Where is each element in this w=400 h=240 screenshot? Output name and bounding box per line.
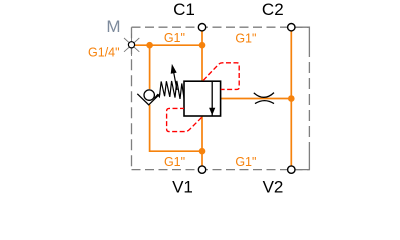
spring of relief valve <box>154 81 184 100</box>
svg-text:G1": G1" <box>164 155 185 169</box>
port C1 <box>198 24 205 31</box>
port V1 <box>198 166 205 173</box>
junction node A <box>146 42 153 49</box>
junction node B <box>199 42 206 49</box>
svg-text:G1": G1" <box>235 31 256 45</box>
junction node C <box>199 148 206 155</box>
border solid corner bottom-right <box>296 152 310 170</box>
check valve CV1 <box>137 90 160 105</box>
pilot line upper (red dashed) <box>203 63 239 90</box>
svg-text:V1: V1 <box>172 178 193 197</box>
adjustment arrow <box>171 64 177 90</box>
svg-text:V2: V2 <box>263 178 284 197</box>
manifold block dashed border right <box>308 46 310 152</box>
restrictor orifice <box>254 93 274 104</box>
svg-text:G1": G1" <box>235 155 256 169</box>
wire check valve down and right to node C <box>150 105 202 152</box>
pilot line lower (red dashed) <box>167 108 202 131</box>
port V2 <box>288 166 295 173</box>
relief valve body U1 <box>184 81 221 116</box>
border solid corner top-right <box>295 27 309 46</box>
wire valve right to node D horizontal <box>221 98 292 100</box>
junction node D <box>288 95 295 102</box>
svg-text:G1": G1" <box>164 31 185 45</box>
svg-text:C1: C1 <box>173 0 195 19</box>
port M plugged symbol <box>124 34 139 57</box>
manifold block dashed border left <box>131 27 133 169</box>
wire node A down to check valve <box>149 45 151 89</box>
wire C1 down to valve top <box>201 31 203 82</box>
svg-text:G1/4": G1/4" <box>88 46 120 60</box>
manifold block dashed border bottom <box>132 169 310 171</box>
manifold block dashed border top <box>132 26 310 28</box>
svg-text:C2: C2 <box>262 0 284 19</box>
wire M to node A horizontal <box>135 44 202 46</box>
wire C2 to V2 vertical <box>290 31 292 166</box>
wire valve bottom to V1 <box>201 116 203 166</box>
svg-text:M: M <box>106 17 120 36</box>
port C2 <box>288 24 295 31</box>
